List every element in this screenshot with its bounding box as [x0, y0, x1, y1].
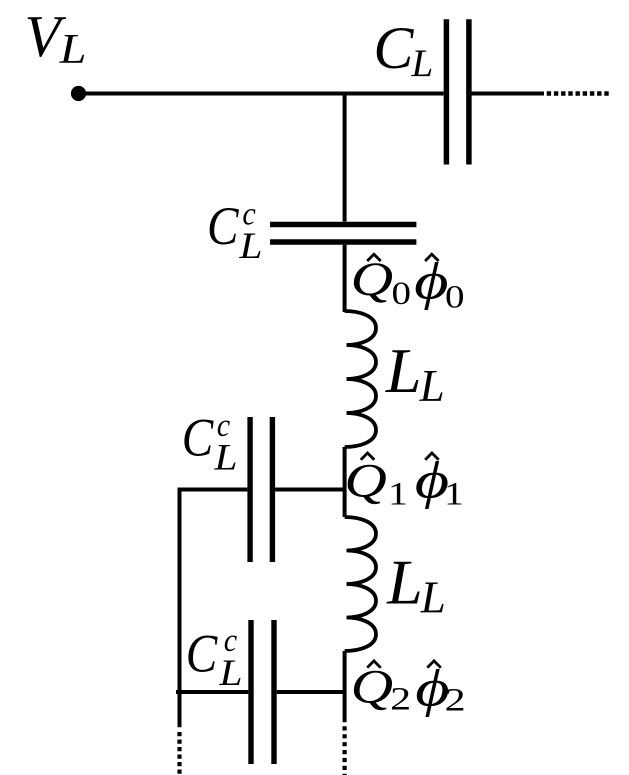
label C_L [373, 15, 433, 85]
svg-text:C: C [182, 408, 214, 468]
node 2 label Q̂₂ φ̂₂ [351, 659, 466, 718]
svg-text:C: C [373, 15, 414, 81]
wire: from C_L^c bottom plate down to inductor top (node 0) [343, 245, 347, 312]
svg-text:L: L [59, 27, 87, 73]
svg-text:0: 0 [392, 276, 412, 312]
label C_L^c (second coupling capacitor) [182, 408, 238, 479]
svg-text:2: 2 [445, 683, 466, 719]
wire: node 1 horizontal, capacitor to node 1 [275, 488, 345, 492]
wire: main horizontal from V_L dot to capacitor C_L left plate [78, 92, 444, 96]
label L_L first [385, 335, 445, 411]
svg-text:L: L [213, 437, 237, 478]
wire: node 1 horizontal, left segment to capacitor [178, 488, 248, 492]
svg-text:L: L [411, 42, 434, 85]
wire: node 2 horizontal, left segment to capacitor [176, 690, 248, 694]
wire: left vertical rail from node 1 down [178, 488, 182, 728]
svg-text:0: 0 [445, 279, 465, 315]
svg-text:L: L [238, 226, 262, 267]
svg-text:1: 1 [444, 477, 464, 513]
svg-text:Q: Q [351, 253, 394, 306]
capacitor C_L^c second (vertical plates) [250, 417, 272, 562]
svg-text:C: C [186, 624, 218, 684]
svg-text:L: L [419, 361, 445, 411]
node 0 label Q̂₀ φ̂₀ [351, 253, 465, 316]
capacitor C_L (series, vertical plates) [446, 19, 469, 164]
svg-text:2: 2 [390, 682, 411, 718]
wire: from C_L right plate to the right [472, 92, 545, 96]
label C_L^c (first coupling capacitor) [207, 196, 263, 267]
svg-text:C: C [207, 196, 239, 256]
svg-text:L: L [386, 547, 423, 618]
capacitor C_L^c first (horizontal plates) [270, 225, 416, 243]
capacitor C_L^c third (vertical plates) [251, 620, 274, 764]
svg-text:L: L [420, 573, 446, 623]
wire: right rail dotted continuation [343, 726, 347, 775]
wire: vertical through node 2 from inductor bottom down [343, 651, 347, 722]
svg-text:L: L [385, 335, 422, 406]
svg-text:L: L [218, 653, 242, 694]
wire: dotted continuation to the right edge [547, 91, 611, 95]
inductor L_L second (4 bumps) [345, 517, 376, 651]
inductor L_L first (4 bumps) [345, 311, 376, 447]
label L_L second [386, 547, 446, 623]
wire: vertical through node 1 from inductor bottom to second inductor top [343, 447, 347, 517]
node 1 label Q̂₁ φ̂₁ [344, 452, 464, 513]
wire: node 2 horizontal, capacitor to node 2 [277, 690, 345, 694]
wire: left rail dotted continuation [177, 732, 181, 775]
svg-text:ϕ: ϕ [414, 253, 448, 311]
svg-text:1: 1 [388, 477, 408, 513]
label C_L^c (third coupling capacitor) [186, 623, 243, 694]
node V_L terminal dot [71, 86, 86, 101]
svg-text:Q: Q [351, 661, 394, 714]
wire: junction vertical from main wire down to C_L^c top plate [343, 94, 347, 222]
label V_L [25, 3, 87, 73]
svg-text:Q: Q [344, 455, 387, 508]
